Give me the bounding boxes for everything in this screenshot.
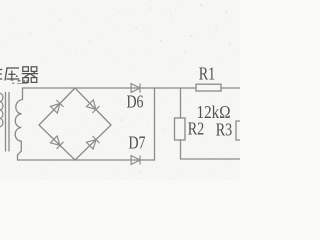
- svg-text:D7: D7: [129, 132, 146, 152]
- svg-text:D6: D6: [127, 92, 144, 112]
- svg-text:R3: R3: [216, 120, 233, 140]
- svg-text:R1: R1: [199, 64, 216, 84]
- svg-text:R2: R2: [188, 119, 205, 139]
